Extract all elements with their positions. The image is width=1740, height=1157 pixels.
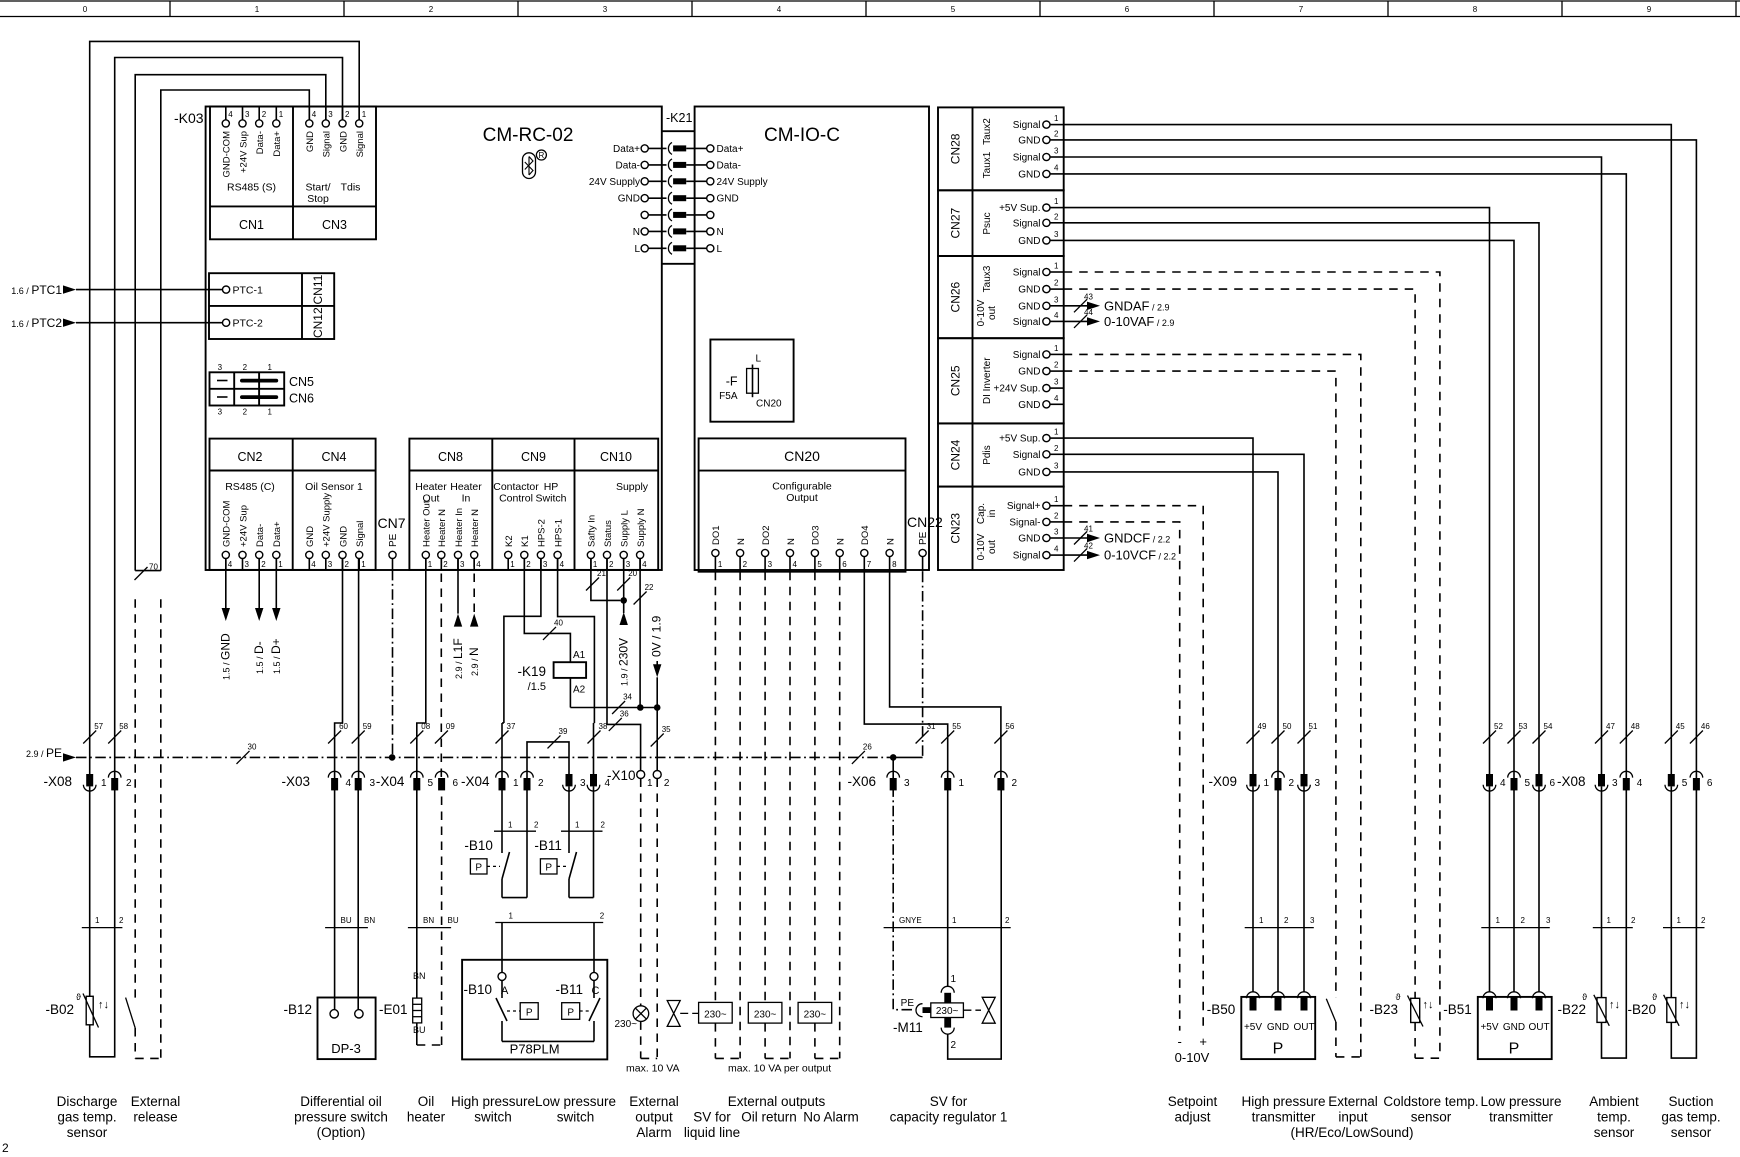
net arrow 2.9/L1F at CN8:3 bbox=[451, 559, 465, 680]
svg-text:3: 3 bbox=[218, 363, 223, 372]
svg-text:CN2: CN2 bbox=[237, 450, 262, 464]
relay coil -K19 bbox=[517, 650, 586, 696]
svg-text:1: 1 bbox=[428, 560, 433, 569]
svg-text:3: 3 bbox=[543, 560, 548, 569]
connector CN2 pin 3 +24V Sup bbox=[238, 505, 249, 570]
svg-text:+5V: +5V bbox=[1480, 1022, 1498, 1033]
connector CN20 pin 5 DO3 bbox=[811, 525, 823, 571]
connector CN20 pin 6 N bbox=[836, 538, 848, 572]
svg-text:1: 1 bbox=[267, 408, 272, 417]
svg-text:-B11: -B11 bbox=[555, 982, 583, 997]
wire -X04:2 to -B10 bbox=[526, 786, 528, 831]
switch CN5/CN6 box bbox=[210, 363, 315, 417]
svg-text:0-10V: 0-10V bbox=[976, 533, 987, 560]
svg-text:30: 30 bbox=[248, 742, 257, 751]
net arrow GNDAF/2.9 wire 43 bbox=[1064, 292, 1170, 313]
svg-text:GND: GND bbox=[1018, 534, 1040, 545]
svg-text:C: C bbox=[592, 985, 600, 997]
svg-text:Oil return: Oil return bbox=[741, 1110, 797, 1125]
svg-text:49: 49 bbox=[1258, 722, 1267, 731]
wire 57 mark bbox=[83, 722, 103, 744]
svg-text:+5V: +5V bbox=[1244, 1022, 1262, 1033]
component -B10 P actuator bbox=[464, 838, 500, 874]
connector CN9 pin 3 HPS-2 bbox=[537, 519, 548, 570]
connector CN2 pin 4 GND-COM bbox=[222, 500, 233, 569]
svg-text:+24V Supply: +24V Supply bbox=[322, 493, 333, 547]
svg-text:switch: switch bbox=[474, 1110, 512, 1125]
connector CN25 pin 3 +24V Sup. bbox=[994, 378, 1064, 395]
svg-text:temp.: temp. bbox=[1597, 1110, 1631, 1125]
wire 46 CN28:2 to -B20 bbox=[1064, 140, 1711, 778]
svg-text:CN26: CN26 bbox=[949, 281, 963, 312]
svg-text:48: 48 bbox=[1631, 722, 1640, 731]
svg-text:/1.5: /1.5 bbox=[528, 681, 546, 693]
net arrow 0-10VAF/2.9 wire 44 bbox=[1064, 308, 1175, 329]
svg-text:-B51: -B51 bbox=[1443, 1002, 1472, 1017]
svg-text:1: 1 bbox=[1054, 428, 1059, 437]
svg-text:2: 2 bbox=[951, 1040, 957, 1051]
svg-text:0: 0 bbox=[83, 5, 88, 14]
svg-text:GND-COM: GND-COM bbox=[222, 500, 233, 547]
svg-text:Signal: Signal bbox=[355, 131, 366, 157]
connector CN8 pin 3 Heater In bbox=[454, 508, 465, 570]
terminal ambient 4 bbox=[1620, 771, 1643, 790]
transmitter -B50 bbox=[1207, 992, 1315, 1059]
connector CN3 pin 1 Signal bbox=[355, 107, 367, 158]
label max 10 VA per output bbox=[728, 1063, 831, 1075]
svg-text:No Alarm: No Alarm bbox=[803, 1110, 859, 1125]
wire 39 bridge -X04:2 to -X04:3 bbox=[527, 727, 569, 778]
svg-text:SV for: SV for bbox=[693, 1110, 731, 1125]
wire 31 CN22:PE drop (dash-dot) bbox=[916, 572, 936, 758]
svg-text:Low pressure: Low pressure bbox=[1480, 1094, 1561, 1109]
svg-text:5: 5 bbox=[1525, 778, 1531, 789]
wire to P78PLM A bbox=[501, 923, 503, 973]
svg-text:Heater N: Heater N bbox=[437, 509, 448, 547]
connector CN1 pin 4 GND-COM bbox=[222, 107, 234, 178]
svg-text:P: P bbox=[1509, 1041, 1520, 1058]
svg-text:1: 1 bbox=[1607, 916, 1612, 925]
connector CN25 box bbox=[938, 338, 1064, 423]
wire CN20 oil return output (dashed pair) bbox=[765, 572, 790, 1059]
svg-text:GND: GND bbox=[1018, 301, 1040, 312]
svg-text:4: 4 bbox=[777, 5, 782, 14]
svg-text:1: 1 bbox=[1054, 262, 1059, 271]
svg-text:+24V Sup: +24V Sup bbox=[238, 505, 249, 547]
terminal -X04:5 bbox=[411, 771, 434, 790]
wire CN25:2 ext input gnd (dashed) bbox=[1064, 371, 1336, 998]
svg-text:CN20: CN20 bbox=[756, 399, 782, 410]
svg-text:4: 4 bbox=[228, 110, 233, 119]
svg-text:5: 5 bbox=[817, 560, 822, 569]
svg-text:2: 2 bbox=[1054, 511, 1059, 520]
svg-text:2: 2 bbox=[538, 778, 544, 789]
svg-text:PTC-1: PTC-1 bbox=[233, 284, 263, 296]
terminal -X06:2 bbox=[995, 771, 1018, 790]
svg-text:max. 10 VA: max. 10 VA bbox=[626, 1063, 680, 1075]
svg-text:P: P bbox=[526, 1007, 533, 1018]
wire -X08:5 to -B51 bbox=[1513, 786, 1515, 991]
net arrow 1.5/D- bbox=[252, 559, 266, 675]
component -B12 DP-3 oil pressure switch bbox=[283, 998, 375, 1060]
svg-text:Alarm: Alarm bbox=[636, 1125, 671, 1140]
terminal -X04:6 bbox=[435, 771, 458, 790]
svg-text:57: 57 bbox=[94, 722, 103, 731]
svg-text:Data-: Data- bbox=[255, 524, 266, 547]
sensor -B02 discharge gas temp bbox=[45, 992, 109, 1028]
svg-text:1: 1 bbox=[255, 5, 260, 14]
svg-text:Cap.: Cap. bbox=[976, 503, 987, 524]
svg-text:2: 2 bbox=[1284, 916, 1289, 925]
svg-text:P: P bbox=[567, 1007, 574, 1018]
svg-text:Heater N: Heater N bbox=[470, 509, 481, 547]
wire 58 mark bbox=[108, 722, 128, 744]
svg-text:ϑ: ϑ bbox=[76, 992, 81, 1002]
terminal -X08:4 bbox=[1483, 774, 1506, 791]
svg-text:(Option): (Option) bbox=[317, 1125, 366, 1140]
svg-text:Contactor: Contactor bbox=[493, 481, 539, 493]
svg-text:-X10: -X10 bbox=[607, 768, 636, 783]
connector CN9 pin 2 K1 bbox=[520, 535, 531, 570]
wire 54 CN27:2 to -X08:6 bbox=[1064, 223, 1553, 778]
svg-text:43: 43 bbox=[1084, 292, 1093, 301]
svg-text:Signal: Signal bbox=[1013, 551, 1041, 562]
terminal strip label -X10 bbox=[607, 768, 636, 783]
switch P78PLM C contact bbox=[562, 980, 600, 1041]
svg-text:-K21: -K21 bbox=[666, 111, 692, 125]
svg-text:HPS-1: HPS-1 bbox=[553, 519, 564, 547]
svg-text:2: 2 bbox=[1054, 361, 1059, 370]
svg-text:adjust: adjust bbox=[1174, 1110, 1210, 1125]
svg-text:sensor: sensor bbox=[1411, 1110, 1452, 1125]
wire CN26:1 coldstore signal (dashed) bbox=[1064, 272, 1440, 1058]
svg-text:↑↓: ↑↓ bbox=[1609, 999, 1620, 1011]
page number bbox=[2, 1141, 9, 1155]
svg-text:3: 3 bbox=[1054, 378, 1059, 387]
svg-text:PE: PE bbox=[901, 998, 915, 1009]
svg-text:GND: GND bbox=[1018, 135, 1040, 146]
svg-text:sensor: sensor bbox=[1671, 1125, 1712, 1140]
wire -X03:4 to -B12 bbox=[334, 786, 336, 1009]
svg-text:+24V Sup: +24V Sup bbox=[238, 131, 249, 173]
sensor -B23 coldstore temp bbox=[1369, 992, 1439, 1058]
svg-text:41: 41 bbox=[1084, 525, 1093, 534]
wire -X04:4 to -B11 bbox=[593, 786, 595, 831]
svg-text:Signal: Signal bbox=[1013, 268, 1041, 279]
connector CN1 pin 3 +24V Sup bbox=[238, 107, 250, 173]
connector CN27 pin 2 Signal bbox=[1013, 212, 1064, 229]
label CN27 Psuc bbox=[982, 212, 993, 234]
cable bar -M11 bbox=[884, 916, 1011, 928]
connector -K21 contact 24V Supply bbox=[589, 175, 768, 188]
svg-text:pressure switch: pressure switch bbox=[294, 1110, 388, 1125]
svg-text:Data+: Data+ bbox=[272, 521, 283, 547]
cable bar -B20 bbox=[1663, 916, 1706, 928]
terminal -X10:1 bbox=[637, 771, 653, 790]
svg-text:1: 1 bbox=[1264, 778, 1270, 789]
svg-text:K1: K1 bbox=[520, 535, 531, 547]
bluetooth logo bbox=[523, 150, 547, 179]
connector CN23 pin 3 GND bbox=[1018, 528, 1063, 545]
svg-text:7: 7 bbox=[867, 560, 872, 569]
svg-text:in: in bbox=[987, 510, 998, 518]
svg-text:3: 3 bbox=[1054, 230, 1059, 239]
net arrow 2.9/PE bbox=[26, 746, 76, 762]
label CN23 0-10V out bbox=[976, 533, 998, 560]
wire 59 CN4:1 to -X03:3 bbox=[352, 559, 372, 779]
svg-text:2: 2 bbox=[429, 5, 434, 14]
connector CN20 box bbox=[699, 438, 906, 571]
cable bar -B02 bbox=[82, 916, 124, 928]
svg-text:CN10: CN10 bbox=[600, 450, 632, 464]
svg-text:Signal: Signal bbox=[355, 521, 366, 547]
svg-text:max. 10 VA per output: max. 10 VA per output bbox=[728, 1063, 831, 1075]
wire -E01 bottom to -X04:6 (dashed return) bbox=[417, 786, 442, 1045]
svg-text:3: 3 bbox=[1310, 916, 1315, 925]
connector CN28 box bbox=[938, 107, 1064, 190]
svg-text:Heater In: Heater In bbox=[454, 508, 465, 547]
connector CN25 pin 1 Signal bbox=[1013, 344, 1064, 361]
wire 40 CN9:K1 to -K19 A1 bbox=[524, 559, 570, 663]
connector CN28 pin 3 Signal bbox=[1013, 147, 1064, 164]
wire CN3 pin2 to -X08:2 bbox=[115, 58, 343, 779]
svg-text:2: 2 bbox=[1054, 129, 1059, 138]
svg-text:44: 44 bbox=[1084, 308, 1093, 317]
svg-text:-F: -F bbox=[726, 375, 738, 389]
connector CN8 pin 2 Heater N bbox=[437, 509, 448, 570]
switch CN5 position bar bbox=[217, 379, 278, 383]
terminal -X04:1 bbox=[496, 771, 519, 790]
svg-text:out: out bbox=[987, 306, 998, 320]
connector CN10 pin 4 Supply N bbox=[636, 508, 647, 570]
connector CN26 pin 2 GND bbox=[1018, 279, 1063, 296]
svg-text:4: 4 bbox=[1054, 311, 1059, 320]
svg-text:GND: GND bbox=[1018, 236, 1040, 247]
svg-text:1.9 / 230V: 1.9 / 230V bbox=[617, 638, 631, 686]
svg-text:-B23: -B23 bbox=[1369, 1002, 1398, 1017]
connector CN3 pin 2 GND bbox=[338, 107, 350, 153]
svg-text:+5V Sup.: +5V Sup. bbox=[999, 434, 1040, 445]
svg-text:Pdis: Pdis bbox=[982, 445, 993, 464]
svg-text:4: 4 bbox=[1054, 394, 1059, 403]
label CN28 Taux1 bbox=[982, 151, 993, 178]
svg-text:A2: A2 bbox=[573, 685, 586, 696]
wire 35 to -X10:2 bbox=[651, 708, 671, 771]
terminal -X09:2 bbox=[1272, 771, 1295, 790]
svg-text:P: P bbox=[545, 863, 552, 874]
connector -K21 contact L bbox=[634, 242, 722, 255]
wire to -B20 left bbox=[1670, 786, 1672, 997]
svg-text:Switch: Switch bbox=[536, 493, 567, 505]
svg-text:2: 2 bbox=[126, 778, 132, 789]
connector CN10 pin 2 Status bbox=[603, 520, 614, 570]
label CN25 DI Inverter bbox=[982, 357, 993, 404]
svg-text:Data-: Data- bbox=[255, 131, 266, 154]
svg-text:8: 8 bbox=[1473, 5, 1478, 14]
svg-text:High pressure: High pressure bbox=[451, 1094, 535, 1109]
connector CN25 pin 2 GND bbox=[1018, 361, 1063, 378]
wire 50 CN24:3 to -X09:2 bbox=[1064, 472, 1292, 778]
terminal strip label -X09 bbox=[1208, 774, 1237, 789]
svg-text:26: 26 bbox=[863, 742, 872, 751]
svg-text:RS485 (C): RS485 (C) bbox=[225, 481, 275, 493]
connector -K21 contact Data- bbox=[616, 159, 741, 172]
svg-text:Heater Out: Heater Out bbox=[422, 500, 433, 547]
wire to P78PLM C bbox=[593, 923, 595, 973]
svg-text:Supply N: Supply N bbox=[636, 508, 647, 547]
svg-text:-X09: -X09 bbox=[1208, 774, 1237, 789]
svg-text:switch: switch bbox=[557, 1110, 595, 1125]
svg-text:2.9 / N: 2.9 / N bbox=[467, 647, 481, 676]
wire bridge 70 bbox=[135, 563, 161, 581]
svg-text:1: 1 bbox=[95, 916, 100, 925]
svg-text:3: 3 bbox=[328, 110, 333, 119]
connector CN3 pin 4 GND bbox=[305, 107, 317, 153]
svg-text:ϑ: ϑ bbox=[1582, 992, 1587, 1002]
connector CN26 pin 3 GND bbox=[1018, 295, 1063, 312]
svg-text:Signal: Signal bbox=[1013, 450, 1041, 461]
terminal -X09:1 bbox=[1247, 774, 1270, 791]
wire -B20 return bbox=[1671, 786, 1696, 1058]
svg-text:-B50: -B50 bbox=[1207, 1002, 1236, 1017]
wire -X08:4 to -B51 bbox=[1489, 786, 1491, 991]
connector CN28 pin 1 Signal bbox=[1013, 114, 1064, 131]
svg-text:Ambient: Ambient bbox=[1589, 1094, 1639, 1109]
terminal -X03:3 bbox=[352, 771, 376, 790]
wire 55 CN20:DO4 to -X06:1 bbox=[864, 572, 961, 778]
svg-text:Differential oil: Differential oil bbox=[300, 1094, 382, 1109]
svg-text:24V Supply: 24V Supply bbox=[717, 177, 768, 188]
svg-text:4: 4 bbox=[228, 560, 233, 569]
svg-text:1: 1 bbox=[1677, 916, 1682, 925]
net arrow 2.9/N at CN8:4 bbox=[467, 559, 481, 677]
svg-text:Signal: Signal bbox=[1013, 120, 1041, 131]
terminal ambient 3 bbox=[1595, 774, 1618, 791]
svg-text:230~: 230~ bbox=[754, 1009, 777, 1020]
net arrow 1.5/GND bbox=[219, 559, 233, 681]
module CM-RC-02 bbox=[206, 107, 662, 571]
svg-text:40: 40 bbox=[554, 618, 563, 627]
wire 20 CN10:SupplyL to 230V bbox=[617, 559, 638, 687]
svg-text:1: 1 bbox=[951, 974, 957, 985]
svg-text:1: 1 bbox=[1054, 344, 1059, 353]
svg-text:N: N bbox=[885, 538, 896, 545]
svg-text:transmitter: transmitter bbox=[1252, 1110, 1316, 1125]
svg-text:-B10: -B10 bbox=[464, 838, 493, 853]
load box 230~ oil return output bbox=[748, 1002, 782, 1023]
svg-text:4: 4 bbox=[312, 110, 317, 119]
net arrow 1.5/D+ bbox=[269, 559, 283, 675]
svg-text:GND: GND bbox=[717, 194, 739, 205]
svg-text:Data-: Data- bbox=[616, 160, 640, 171]
svg-text:-: - bbox=[1178, 1034, 1182, 1049]
terminal strip label -X04 (heater) bbox=[461, 774, 490, 789]
svg-text:59: 59 bbox=[363, 722, 372, 731]
terminal -X04:2 bbox=[521, 771, 544, 790]
svg-text:46: 46 bbox=[1701, 722, 1710, 731]
svg-text:Data-: Data- bbox=[717, 160, 741, 171]
terminal -X08:2 bbox=[108, 771, 132, 790]
svg-text:6: 6 bbox=[1550, 778, 1556, 789]
wire -X08:1 to -B02 bbox=[89, 786, 91, 996]
cable bar P78PLM bbox=[495, 912, 605, 923]
svg-text:1: 1 bbox=[361, 560, 366, 569]
svg-text:CN11: CN11 bbox=[311, 274, 325, 304]
wire 21 CN10:SaftyIn to Supply L bbox=[586, 559, 620, 601]
svg-text:3: 3 bbox=[1315, 778, 1321, 789]
connector CN10 pin 1 Safty In bbox=[587, 515, 598, 570]
connector CN20 pin 3 DO2 bbox=[761, 525, 773, 571]
svg-text:230~: 230~ bbox=[804, 1009, 827, 1020]
svg-text:4: 4 bbox=[1054, 163, 1059, 172]
svg-text:CM-RC-02: CM-RC-02 bbox=[483, 125, 574, 146]
wire 47 CN28:3 to -B22 bbox=[1064, 157, 1616, 778]
connector CN8 pin 1 Heater Out bbox=[422, 500, 433, 570]
svg-text:2: 2 bbox=[261, 560, 266, 569]
svg-text:52: 52 bbox=[1494, 722, 1503, 731]
svg-text:2: 2 bbox=[743, 560, 748, 569]
svg-text:Data+: Data+ bbox=[272, 131, 283, 157]
svg-text:-X04: -X04 bbox=[376, 774, 405, 789]
svg-text:CN4: CN4 bbox=[321, 450, 346, 464]
svg-text:6: 6 bbox=[1125, 5, 1130, 14]
connector CN23 box bbox=[938, 487, 1064, 570]
svg-text:N: N bbox=[717, 227, 724, 238]
svg-text:CN3: CN3 bbox=[322, 218, 347, 232]
svg-text:+24V Sup.: +24V Sup. bbox=[994, 384, 1041, 395]
svg-text:CN24: CN24 bbox=[949, 439, 963, 470]
cable bar -B12 bbox=[325, 916, 375, 928]
label CN26 Taux3 bbox=[982, 265, 993, 292]
connector CN23 pin 4 Signal bbox=[1013, 545, 1064, 562]
connector -K21 box bbox=[662, 111, 695, 264]
svg-text:GND: GND bbox=[618, 194, 640, 205]
svg-text:2: 2 bbox=[664, 778, 670, 789]
svg-text:3: 3 bbox=[328, 560, 333, 569]
svg-text:PE: PE bbox=[918, 531, 929, 545]
svg-text:1: 1 bbox=[959, 778, 965, 789]
svg-text:3: 3 bbox=[370, 778, 376, 789]
svg-text:Psuc: Psuc bbox=[982, 212, 993, 234]
svg-text:CN28: CN28 bbox=[949, 133, 963, 164]
connector CN1 pin 2 Data- bbox=[255, 107, 267, 155]
svg-text:1.6 / PTC1: 1.6 / PTC1 bbox=[11, 283, 62, 297]
svg-text:39: 39 bbox=[559, 727, 568, 736]
connector CN11/CN12 box bbox=[209, 273, 334, 339]
svg-text:21: 21 bbox=[597, 569, 606, 578]
svg-text:External: External bbox=[629, 1094, 679, 1109]
svg-text:ϑ: ϑ bbox=[1652, 992, 1657, 1002]
svg-text:-M11: -M11 bbox=[893, 1020, 923, 1035]
svg-text:PE: PE bbox=[388, 533, 399, 547]
valve SV liquid line bbox=[667, 1001, 698, 1027]
svg-text:6: 6 bbox=[453, 778, 459, 789]
wire 48 CN28:4 to -B22 bbox=[1064, 174, 1641, 778]
svg-text:7: 7 bbox=[1299, 5, 1304, 14]
lamp external output alarm 230~ bbox=[614, 1006, 648, 1030]
svg-text:OUT: OUT bbox=[1293, 1022, 1314, 1033]
svg-text:CN5: CN5 bbox=[289, 375, 314, 389]
svg-text:Control: Control bbox=[499, 493, 533, 505]
svg-text:60: 60 bbox=[339, 722, 348, 731]
connector CN10 pin 3 Supply L bbox=[620, 510, 631, 570]
svg-text:37: 37 bbox=[507, 722, 516, 731]
svg-text:3: 3 bbox=[1546, 916, 1551, 925]
svg-text:2: 2 bbox=[609, 560, 614, 569]
svg-text:GND: GND bbox=[1018, 400, 1040, 411]
svg-text:Supply: Supply bbox=[616, 481, 649, 493]
svg-text:58: 58 bbox=[119, 722, 128, 731]
